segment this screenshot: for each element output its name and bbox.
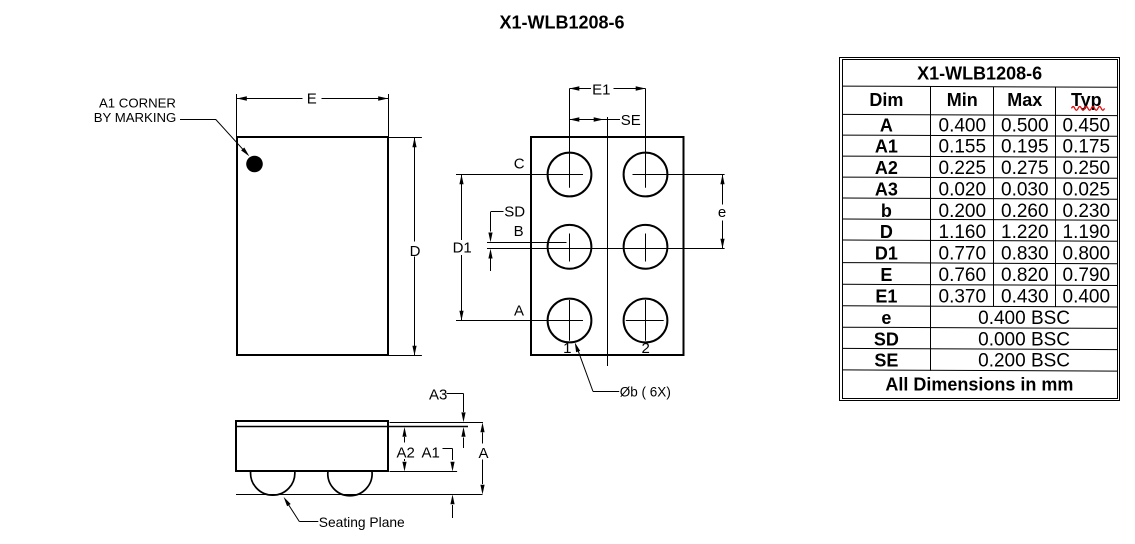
side view top layer line xyxy=(237,426,468,428)
table row SE xyxy=(874,351,1070,372)
table row D1 xyxy=(875,244,1110,265)
label A3 xyxy=(429,387,447,404)
seating plane line xyxy=(236,494,483,496)
svg-text:E: E xyxy=(880,265,892,285)
dimension A1 with arrows xyxy=(443,449,455,519)
table row A1 xyxy=(875,137,1110,158)
label D1 xyxy=(453,239,472,256)
table inner border xyxy=(843,60,1118,399)
table row divider lines xyxy=(843,86,1118,371)
svg-text:0.200: 0.200 xyxy=(939,201,987,222)
svg-text:0.370: 0.370 xyxy=(939,287,987,308)
ball C1 xyxy=(548,153,592,197)
dimension A2 with arrows xyxy=(402,427,406,472)
package vertical center line xyxy=(607,117,609,366)
svg-text:D: D xyxy=(410,243,421,260)
svg-text:0.195: 0.195 xyxy=(1001,137,1049,158)
svg-text:Min: Min xyxy=(947,90,978,110)
ball B1 xyxy=(548,225,592,269)
svg-text:A: A xyxy=(880,115,893,135)
leader line for ball diameter xyxy=(575,342,619,391)
svg-text:0.225: 0.225 xyxy=(939,158,987,179)
label A2 xyxy=(397,444,415,461)
label Seating Plane xyxy=(319,515,405,530)
A1 corner marking dot xyxy=(246,156,263,173)
svg-text:0.175: 0.175 xyxy=(1063,137,1111,158)
dimension D extension lines xyxy=(389,138,422,356)
label SD xyxy=(504,203,525,220)
dimension SD leader and arrows xyxy=(488,212,503,272)
svg-text:BY MARKING: BY MARKING xyxy=(94,110,177,125)
svg-text:D1: D1 xyxy=(875,244,898,264)
side view ball 1 xyxy=(251,472,295,496)
table column divider lines xyxy=(931,86,1056,370)
svg-text:0.000 BSC: 0.000 BSC xyxy=(978,329,1070,350)
svg-text:E: E xyxy=(307,91,317,108)
label E1 xyxy=(592,82,610,99)
svg-text:A1 CORNER: A1 CORNER xyxy=(99,96,176,111)
svg-text:A3: A3 xyxy=(875,179,898,199)
table outer border xyxy=(840,58,1120,401)
table row SD xyxy=(874,329,1070,350)
table title X1-WLB1208-6 xyxy=(917,63,1042,83)
drawing title X1-WLB1208-6 xyxy=(499,13,624,33)
svg-text:0.275: 0.275 xyxy=(1001,158,1049,179)
svg-text:0.250: 0.250 xyxy=(1063,158,1111,179)
dimension A with arrows xyxy=(480,423,484,495)
svg-text:0.800: 0.800 xyxy=(1063,244,1111,265)
svg-text:0.400 BSC: 0.400 BSC xyxy=(978,308,1070,329)
row label C xyxy=(514,156,525,173)
svg-text:E1: E1 xyxy=(875,287,897,307)
svg-text:0.020: 0.020 xyxy=(939,179,987,200)
svg-text:0.030: 0.030 xyxy=(1001,179,1049,200)
svg-text:0.430: 0.430 xyxy=(1001,287,1049,308)
svg-text:All Dimensions in mm: All Dimensions in mm xyxy=(885,375,1073,395)
dimension D line with arrows xyxy=(412,138,416,356)
svg-text:1: 1 xyxy=(563,340,571,357)
top view package body outline xyxy=(237,137,388,355)
ball A2 xyxy=(624,299,668,343)
svg-text:D1: D1 xyxy=(453,239,472,256)
table row e xyxy=(881,308,1070,329)
ball A1 xyxy=(548,299,592,343)
table row A3 xyxy=(875,179,1110,200)
body top extension line xyxy=(390,422,484,424)
ball C2 xyxy=(624,153,668,197)
table row E1 xyxy=(875,287,1110,308)
table row b xyxy=(881,201,1110,222)
pin number 2 xyxy=(642,340,650,357)
svg-text:A2: A2 xyxy=(875,158,898,178)
row label A xyxy=(514,303,524,320)
ball B1 vertical axis xyxy=(569,234,571,262)
row label B xyxy=(514,223,524,240)
leader line to A1 marking dot xyxy=(180,120,249,157)
label diameter b 6X xyxy=(620,384,671,399)
svg-text:1.160: 1.160 xyxy=(939,222,987,243)
ball C1 vertical axis xyxy=(569,89,571,188)
svg-text:0.450: 0.450 xyxy=(1063,115,1111,136)
svg-text:e: e xyxy=(718,204,726,221)
row B offset line xyxy=(487,242,567,244)
svg-text:X1-WLB1208-6: X1-WLB1208-6 xyxy=(917,63,1042,83)
row B center line xyxy=(487,248,725,250)
label A1 CORNER BY MARKING xyxy=(94,96,177,126)
svg-text:A2: A2 xyxy=(397,444,415,461)
body bottom extension line xyxy=(390,471,458,473)
label SE xyxy=(621,112,641,129)
svg-text:0.230: 0.230 xyxy=(1063,201,1111,222)
svg-text:b: b xyxy=(881,201,892,221)
spell check squiggle under Typ xyxy=(1072,107,1105,111)
svg-text:0.400: 0.400 xyxy=(1063,287,1111,308)
svg-text:0.025: 0.025 xyxy=(1063,179,1111,200)
table row A xyxy=(880,115,1110,136)
svg-text:0.500: 0.500 xyxy=(1001,115,1049,136)
svg-text:0.760: 0.760 xyxy=(939,265,987,286)
svg-text:e: e xyxy=(881,308,891,328)
ball A2 horizontal axis xyxy=(626,320,664,322)
svg-text:SE: SE xyxy=(621,112,641,129)
leader line to seating plane xyxy=(284,497,319,522)
svg-text:0.790: 0.790 xyxy=(1063,265,1111,286)
pin number 1 xyxy=(563,340,571,357)
svg-text:0.400: 0.400 xyxy=(939,115,987,136)
svg-text:E1: E1 xyxy=(592,82,610,99)
svg-text:2: 2 xyxy=(642,340,650,357)
svg-text:SD: SD xyxy=(874,329,899,349)
svg-text:SE: SE xyxy=(874,351,898,371)
svg-text:SD: SD xyxy=(504,203,525,220)
dimension D1 line with arrows xyxy=(459,175,463,321)
dimension e line with arrows xyxy=(720,175,724,249)
svg-text:A3: A3 xyxy=(429,387,447,404)
bottom view package outline xyxy=(531,137,684,355)
svg-text:X1-WLB1208-6: X1-WLB1208-6 xyxy=(499,13,624,33)
side view package body outline xyxy=(236,421,388,471)
svg-text:0.155: 0.155 xyxy=(939,137,987,158)
ball B2 xyxy=(624,225,668,269)
table row D xyxy=(880,222,1110,243)
svg-text:A1: A1 xyxy=(875,137,898,157)
svg-text:D: D xyxy=(880,222,893,242)
row C center line left segment xyxy=(456,174,583,176)
svg-text:0.820: 0.820 xyxy=(1001,265,1049,286)
dimension SE line with arrows xyxy=(570,117,621,121)
label A1 xyxy=(422,444,440,461)
svg-text:A: A xyxy=(478,445,488,462)
svg-text:Max: Max xyxy=(1007,90,1042,110)
ball A1 vertical axis xyxy=(569,300,571,341)
svg-text:B: B xyxy=(514,223,524,240)
svg-text:0.770: 0.770 xyxy=(939,244,987,265)
ball A2 vertical axis xyxy=(645,300,647,341)
svg-text:1.220: 1.220 xyxy=(1001,222,1049,243)
dimension E1 line with arrows xyxy=(570,86,646,90)
svg-text:A: A xyxy=(514,303,524,320)
side view ball 2 xyxy=(328,472,372,496)
svg-text:Øb ( 6X): Øb ( 6X) xyxy=(620,384,671,399)
svg-text:0.260: 0.260 xyxy=(1001,201,1049,222)
row C center line right segment xyxy=(633,174,725,176)
table row E xyxy=(880,265,1110,286)
dimension A3 with arrows xyxy=(447,394,466,449)
dimension E line with arrows xyxy=(237,96,388,100)
svg-text:Dim: Dim xyxy=(869,90,903,110)
label e xyxy=(718,204,726,221)
ball C2 vertical axis xyxy=(645,89,647,188)
svg-text:A1: A1 xyxy=(422,444,440,461)
row A center line xyxy=(456,320,583,322)
ball B2 vertical axis xyxy=(645,234,647,262)
table header row xyxy=(869,90,1101,110)
label A xyxy=(478,445,488,462)
svg-text:C: C xyxy=(514,156,525,173)
svg-text:0.200 BSC: 0.200 BSC xyxy=(978,351,1070,372)
svg-text:1.190: 1.190 xyxy=(1063,222,1111,243)
table row A2 xyxy=(875,158,1110,179)
label E xyxy=(307,91,317,108)
svg-text:Seating Plane: Seating Plane xyxy=(319,515,405,530)
table footer All Dimensions in mm xyxy=(885,375,1073,395)
svg-text:0.830: 0.830 xyxy=(1001,244,1049,265)
dimension E extension lines xyxy=(237,94,389,136)
label D xyxy=(410,243,421,260)
